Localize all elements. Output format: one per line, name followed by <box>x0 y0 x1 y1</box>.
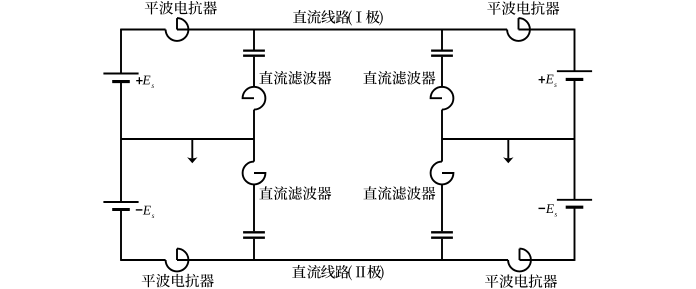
wire: left bus lower segment <box>120 210 122 261</box>
wire: right filter branch, reactor to capacitor <box>441 184 443 231</box>
capacitor C (right lower DC filter) <box>431 231 453 233</box>
wire: left filter branch, capacitor to bottom line <box>253 239 255 260</box>
label 直流滤波器 (bottom right) <box>363 186 435 200</box>
label 直流线路(II极) (bottom) <box>292 265 383 281</box>
wire: left filter branch, capacitor to reactor <box>253 57 255 87</box>
filter reactor (left lower DC filter) <box>243 162 266 185</box>
wire: bottom DC line, centre span <box>177 259 508 261</box>
label 平波电抗器 (bottom right) <box>485 274 557 288</box>
smoothing reactor L1 (top left) <box>166 18 189 41</box>
ground electrode arrow (left) <box>191 139 193 158</box>
wire: right bus middle segment <box>574 79 576 199</box>
wire: right filter branch, capacitor to reactor <box>441 57 443 87</box>
battery +Es (left) <box>103 73 138 75</box>
wire: left filter branch, through neutral wire <box>253 110 255 162</box>
label 直流滤波器 (bottom left) <box>259 186 331 200</box>
battery -Es (left) <box>103 201 138 203</box>
smoothing reactor L3 (bottom left) <box>166 249 189 272</box>
label 平波电抗器 (top left) <box>145 1 217 15</box>
label 直流滤波器 (top left) <box>259 71 331 85</box>
wire: bottom DC line, left of reactor L3 <box>121 259 166 261</box>
smoothing reactor L4 (bottom right) <box>508 249 531 272</box>
capacitor C (right upper DC filter) <box>431 49 453 51</box>
label +Es (left) <box>136 80 142 81</box>
label 平波电抗器 (top right) <box>487 1 559 15</box>
wire: right neutral (middle) wire <box>442 138 575 140</box>
label 直流滤波器 (top right) <box>363 71 435 85</box>
capacitor C (left upper DC filter) <box>243 49 265 51</box>
battery +Es (right) <box>557 70 592 72</box>
wire: bottom DC line, right of reactor L4 <box>520 259 575 261</box>
wire: right filter branch, top line to capacitor <box>441 30 443 50</box>
wire: right filter branch, capacitor to bottom line <box>441 239 443 260</box>
ground electrode arrow (right) <box>507 139 509 158</box>
label 直流线路(I极) (top) <box>293 10 383 26</box>
wire: left filter branch, reactor to capacitor <box>253 184 255 231</box>
wire: left bus upper segment <box>120 29 122 74</box>
filter reactor (left upper DC filter) <box>243 87 266 110</box>
capacitor C (left lower DC filter) <box>243 231 265 233</box>
wire: top DC line, centre span <box>177 29 507 31</box>
wire: top DC line, right of reactor L2 <box>519 29 575 31</box>
label -Es (right) <box>539 208 546 209</box>
wire: left filter branch, top line to capacitor <box>253 30 255 50</box>
wire: right filter branch, through neutral wire <box>441 110 443 162</box>
smoothing reactor L2 (top right) <box>507 18 530 41</box>
label 平波电抗器 (bottom left) <box>142 274 214 288</box>
label -Es (left) <box>136 209 143 210</box>
battery -Es (right) <box>557 199 592 201</box>
filter reactor (right upper DC filter) <box>431 87 454 110</box>
label +Es (right) <box>539 79 545 80</box>
filter reactor (right lower DC filter) <box>431 162 454 185</box>
wire: right bus upper segment <box>574 29 576 72</box>
wire: left bus middle segment <box>120 82 122 202</box>
wire: top DC line, left of reactor L1 <box>121 29 166 31</box>
wire: right bus lower segment <box>574 207 576 261</box>
wire: left neutral (middle) wire <box>121 138 254 140</box>
